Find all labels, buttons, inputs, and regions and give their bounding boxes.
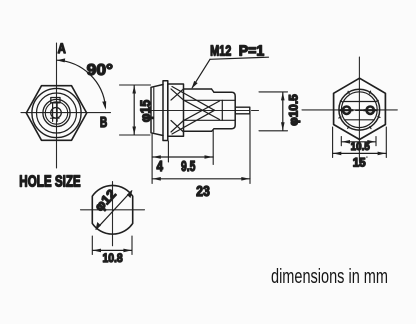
keyway top notch xyxy=(51,98,60,103)
hole horizontal center line xyxy=(81,209,145,211)
svg-text:φ10.5: φ10.5 xyxy=(286,94,300,126)
terminal pin right xyxy=(367,107,374,114)
phi15 arrowhead bottom xyxy=(132,127,136,135)
phi15 top extension line xyxy=(120,84,151,86)
svg-text:23: 23 xyxy=(196,183,210,200)
svg-text:4: 4 xyxy=(157,159,164,175)
hex nut outline (front view) xyxy=(26,86,86,141)
15 left extension xyxy=(332,127,334,158)
rear outer circle xyxy=(339,89,380,130)
phi10.5 top extension line xyxy=(259,91,288,93)
hex nut (side view) xyxy=(168,84,184,136)
rear chord bottom xyxy=(344,119,374,121)
rear horizontal center line xyxy=(302,109,397,111)
nut chamfer X bottom xyxy=(171,121,184,133)
svg-text:10.8: 10.8 xyxy=(102,251,123,265)
M12 leader underline xyxy=(210,57,269,59)
10.8 dimension line xyxy=(93,249,132,251)
dimension line 4 / 9.5 xyxy=(152,156,213,158)
key plug circle xyxy=(51,108,62,119)
phi15 arrowhead top xyxy=(132,85,136,93)
phi10.5 dimension line xyxy=(282,92,284,130)
arrowhead 4 left xyxy=(152,155,160,159)
svg-text:90°: 90° xyxy=(87,62,113,79)
10.5 dimension line xyxy=(342,141,376,143)
bezel outer circle xyxy=(32,88,81,137)
rear ring tick 2 xyxy=(378,116,380,117)
10.5 left extension xyxy=(340,137,342,146)
extension line body rear xyxy=(212,130,214,165)
hole vertical center line xyxy=(112,182,114,246)
phi10.5 arrowhead top xyxy=(281,92,285,100)
svg-text:9.5: 9.5 xyxy=(181,159,196,175)
phi15 dimension line xyxy=(133,85,135,134)
svg-text:φ15: φ15 xyxy=(138,99,153,122)
rear ring tick 7 xyxy=(370,127,371,129)
10.8 arrowhead right xyxy=(123,249,131,253)
extension line pin end xyxy=(249,111,251,184)
body inner line bottom xyxy=(184,119,235,121)
rear inner circle xyxy=(341,92,377,128)
phi10.5 arrowhead bottom xyxy=(281,122,285,130)
switch body outline xyxy=(214,92,235,128)
rear ring tick 1 xyxy=(376,100,378,101)
15 right extension xyxy=(385,127,387,158)
svg-text:dimensions in mm: dimensions in mm xyxy=(271,265,388,288)
center line dash right of pin xyxy=(252,110,259,112)
vertical center line (axis A) xyxy=(56,43,58,168)
15 arrowhead right xyxy=(378,152,386,156)
side view center line xyxy=(148,110,249,112)
bezel head (trapezoid) xyxy=(151,85,163,136)
terminal pin xyxy=(235,107,250,114)
rear ring tick 4 xyxy=(339,117,341,118)
arrowhead 23 left xyxy=(152,177,160,181)
flange washer xyxy=(163,81,168,141)
10.5 arrowhead left xyxy=(342,140,350,144)
phi12 arrowhead lower-left xyxy=(95,222,101,230)
terminal pin left slot xyxy=(340,109,352,111)
barrel chamfer bottom xyxy=(212,129,215,132)
10.8 arrowhead left xyxy=(93,249,101,253)
M12 leader diagonal xyxy=(192,59,210,87)
svg-text:M12: M12 xyxy=(210,43,231,60)
10.8 left extension line xyxy=(91,236,93,255)
phi15 bottom extension line xyxy=(120,134,151,136)
phi12 arrowhead upper-right xyxy=(127,190,133,198)
cylinder funnel upper xyxy=(172,87,215,111)
keyway slot left edge xyxy=(52,103,54,122)
lock cylinder inner circle xyxy=(45,102,67,124)
barrel cross X line 2 xyxy=(184,101,220,120)
rear center dash xyxy=(356,109,363,111)
rear vertical center line xyxy=(358,57,360,161)
rear hex nut outline xyxy=(334,78,386,139)
cylinder funnel lower xyxy=(172,110,215,134)
15 dimension line xyxy=(333,152,387,154)
rear chord top xyxy=(343,101,375,103)
rear ring tick 3 xyxy=(340,101,342,102)
rear ring tick 6 xyxy=(348,91,349,93)
M12 leader arrowhead xyxy=(192,81,198,89)
inner step vertical xyxy=(221,100,223,120)
extension line head front xyxy=(151,134,153,184)
keyway bottom tick xyxy=(51,117,59,119)
rear ring tick 8 xyxy=(348,126,349,128)
terminal pin right slot xyxy=(364,109,376,111)
90 degree arc xyxy=(57,60,106,107)
keyway slot right edge xyxy=(56,103,58,122)
threaded barrel top xyxy=(184,88,212,90)
10.5 arrowhead right xyxy=(367,140,375,144)
phi10.5 bottom extension line xyxy=(259,130,288,132)
nut chamfer X top xyxy=(171,89,184,100)
barrel cross X line 1 xyxy=(184,100,220,119)
arc arrowhead bottom xyxy=(102,101,106,110)
svg-text:P=1: P=1 xyxy=(239,43,265,60)
svg-text:B: B xyxy=(100,115,107,131)
arrowhead 9.5 right xyxy=(205,155,213,159)
svg-text:10.5: 10.5 xyxy=(351,141,370,153)
lock cylinder outer circle xyxy=(43,99,70,126)
arrowhead 23 right xyxy=(241,177,249,181)
15 arrowhead left xyxy=(333,152,341,156)
svg-text:A: A xyxy=(58,40,66,56)
arc arrowhead top xyxy=(56,58,65,62)
dimension line 23 xyxy=(152,178,250,180)
terminal pin left xyxy=(343,107,350,114)
horizontal center line (axis B) xyxy=(21,112,111,114)
extension line flange rear xyxy=(167,141,169,162)
10.5 right extension xyxy=(375,137,377,146)
bezel head inner edge xyxy=(153,88,155,132)
bezel inner circle xyxy=(37,93,77,133)
phi12 diagonal dimension line xyxy=(96,191,131,229)
svg-text:15: 15 xyxy=(353,155,366,169)
body inner line top xyxy=(184,99,235,101)
15 prime mark xyxy=(366,156,368,158)
10.8 right extension line xyxy=(131,236,133,255)
threaded barrel bottom xyxy=(184,130,212,132)
barrel chamfer top xyxy=(212,89,215,92)
svg-text:HOLE SIZE: HOLE SIZE xyxy=(19,174,80,191)
rear ring tick 5 xyxy=(370,91,371,93)
hole outline (circle with two flats) xyxy=(92,185,132,234)
